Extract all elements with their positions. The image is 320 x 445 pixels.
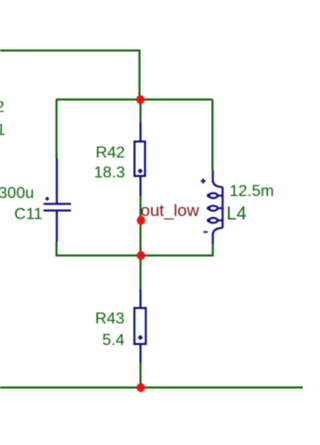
svg-text:5.4: 5.4 — [102, 332, 124, 349]
svg-text:2: 2 — [0, 99, 4, 116]
svg-text:1: 1 — [0, 122, 5, 139]
svg-text:out_low: out_low — [141, 201, 200, 220]
svg-text:R43: R43 — [95, 311, 124, 328]
svg-text:12.5m: 12.5m — [230, 183, 274, 200]
svg-text:R42: R42 — [96, 145, 125, 162]
svg-text:C11: C11 — [14, 206, 42, 223]
svg-text:18.3: 18.3 — [94, 165, 125, 182]
svg-text:300u: 300u — [0, 185, 34, 202]
svg-text:L4: L4 — [227, 204, 247, 224]
